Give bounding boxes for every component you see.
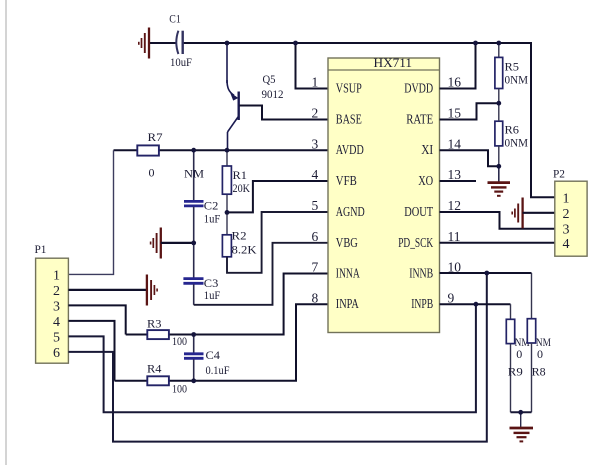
junction R4/C4	[191, 378, 196, 383]
capacitor C4	[184, 335, 230, 381]
capacitor C1	[169, 12, 192, 69]
svg-text:R2: R2	[232, 229, 247, 243]
svg-text:4: 4	[312, 167, 319, 182]
svg-text:20K: 20K	[233, 181, 251, 195]
junction R3/C4	[191, 332, 196, 337]
resistor R7	[137, 130, 204, 181]
svg-text:P2: P2	[553, 167, 565, 181]
svg-text:VFB: VFB	[336, 174, 357, 189]
svg-text:15: 15	[448, 106, 462, 121]
svg-text:100: 100	[172, 334, 187, 348]
wire R2 bottom to AGND pin5	[227, 212, 328, 273]
svg-text:100: 100	[172, 382, 187, 396]
ground GND6 (below R9/R8)	[510, 428, 534, 441]
junction R1/R2/VFB	[225, 210, 230, 215]
svg-text:XO: XO	[418, 174, 433, 189]
svg-text:10uF: 10uF	[170, 55, 192, 69]
wire P1 pin2 to ground	[68, 289, 146, 291]
svg-text:DVDD: DVDD	[404, 82, 433, 97]
svg-text:R4: R4	[147, 362, 162, 376]
svg-text:12: 12	[448, 198, 462, 213]
resistor R4	[147, 362, 187, 396]
svg-text:R3: R3	[147, 317, 162, 331]
wire P1 pin1 riser	[68, 150, 113, 274]
resistor R9	[506, 304, 530, 412]
svg-text:PD_SCK: PD_SCK	[398, 236, 433, 251]
svg-text:RATE: RATE	[406, 113, 433, 128]
svg-text:DOUT: DOUT	[404, 205, 433, 220]
wire C3 bottom to VBG pin6	[194, 243, 328, 305]
wire P1 pin6 to INNB node	[68, 273, 486, 442]
capacitor C3	[183, 243, 220, 305]
wire P1 pin4 to R4	[68, 321, 114, 381]
svg-text:1: 1	[312, 75, 319, 90]
svg-text:0.1uF: 0.1uF	[206, 363, 230, 377]
wire INPB pin9	[440, 303, 511, 305]
svg-text:0NM: 0NM	[505, 73, 529, 87]
capacitor C2	[184, 150, 221, 243]
svg-text:R8: R8	[532, 364, 546, 378]
svg-text:INPB: INPB	[411, 297, 433, 312]
resistor R2	[222, 212, 256, 256]
svg-text:BASE: BASE	[336, 113, 362, 128]
svg-text:0: 0	[149, 166, 155, 180]
junction AVDD/R1/collector	[225, 148, 230, 153]
connector P2	[553, 167, 587, 257]
svg-text:5: 5	[312, 198, 319, 213]
junction INNB/P1-6 riser	[484, 271, 489, 276]
svg-text:INNB: INNB	[409, 267, 433, 282]
wire P1 pin3 to R3	[68, 305, 125, 334]
page edge line	[5, 0, 7, 465]
svg-text:VBG: VBG	[336, 236, 358, 251]
resistor R5	[495, 43, 528, 103]
svg-text:2: 2	[312, 106, 319, 121]
svg-text:R6: R6	[505, 123, 520, 137]
wire XI pin14 to R6 bottom	[440, 150, 499, 166]
svg-text:2: 2	[563, 207, 570, 222]
junction C2/C3/GND2	[191, 241, 196, 246]
junction rail/R5	[496, 41, 501, 46]
svg-text:VSUP: VSUP	[336, 82, 362, 97]
wire R4 row to INPA pin8	[115, 304, 329, 381]
ground GND3 (P1 pin2)	[147, 275, 157, 306]
wire VFB pin4	[227, 181, 328, 212]
wire PD_SCK pin11 to P2 pin4	[440, 242, 555, 244]
svg-text:3: 3	[563, 222, 570, 237]
junction AVDD/C2	[191, 148, 196, 153]
transistor Q5 (9012 PNP)	[227, 43, 239, 150]
resistor R8	[527, 273, 551, 412]
junction rail/VSUP	[293, 41, 298, 46]
svg-text:1uF: 1uF	[204, 212, 221, 226]
svg-text:9: 9	[448, 290, 455, 305]
svg-text:13: 13	[448, 167, 462, 182]
svg-text:3: 3	[53, 299, 60, 314]
connector P1	[35, 242, 69, 363]
svg-text:R7: R7	[148, 130, 163, 144]
ground GND5 (P2 pin2)	[512, 198, 522, 229]
svg-text:R1: R1	[233, 168, 248, 182]
svg-text:0NM: 0NM	[505, 136, 529, 150]
wire GND2 to node	[161, 242, 194, 244]
wire P1 pin5 to INPB node	[68, 304, 476, 412]
svg-text:INPA: INPA	[336, 297, 360, 312]
svg-text:INNA: INNA	[336, 267, 361, 282]
svg-text:8.2K: 8.2K	[232, 243, 257, 257]
wire node to GND6	[520, 412, 522, 427]
wire R3 row to INNA pin7	[126, 274, 328, 335]
svg-text:1uF: 1uF	[204, 288, 221, 302]
junction INPB/P1-5 riser	[474, 302, 479, 307]
svg-text:11: 11	[448, 229, 461, 244]
junction R5/R6/RATE	[496, 101, 501, 106]
svg-text:4: 4	[563, 237, 570, 252]
junction rail/DVDD	[473, 41, 478, 46]
svg-text:C2: C2	[204, 199, 219, 213]
resistor R3	[147, 317, 187, 349]
IC U1 HX711	[328, 55, 440, 332]
svg-text:0: 0	[537, 347, 543, 361]
wire top rail DVDD	[149, 43, 555, 197]
svg-text:R5: R5	[505, 60, 520, 74]
svg-text:Q5: Q5	[263, 72, 276, 86]
wire INNB pin10	[440, 272, 532, 274]
junction rail/Q5 emitter	[225, 41, 230, 46]
wire base of Q5 to pin 2	[240, 106, 329, 120]
wire XO pin13 stub	[440, 180, 477, 182]
svg-text:7: 7	[312, 260, 319, 275]
svg-text:2: 2	[53, 284, 60, 299]
svg-text:1: 1	[53, 268, 60, 283]
wire RATE pin15 to R5/R6 node	[440, 103, 499, 119]
junction R9/R8/GND6	[518, 410, 523, 415]
svg-text:HX711: HX711	[374, 55, 413, 70]
resistor R1	[222, 150, 250, 212]
svg-text:XI: XI	[421, 143, 433, 158]
svg-text:0: 0	[516, 347, 522, 361]
wire R9/R8 bottoms	[511, 411, 532, 413]
svg-text:C4: C4	[206, 348, 221, 362]
svg-text:3: 3	[312, 137, 319, 152]
junction R6/XI/GND4	[496, 164, 501, 169]
svg-text:P1: P1	[35, 242, 47, 256]
wire AVDD row	[114, 149, 329, 151]
svg-text:R9: R9	[508, 364, 523, 378]
wire DVDD pin16 to rail	[440, 43, 476, 89]
svg-text:1: 1	[563, 191, 570, 206]
svg-text:AVDD: AVDD	[336, 143, 364, 158]
ground GND2 (left of C2/C3 node)	[151, 228, 161, 259]
wire node to GND4	[498, 166, 500, 182]
svg-text:C1: C1	[169, 12, 181, 26]
svg-text:AGND: AGND	[336, 205, 365, 220]
ground GND1 (left of C1)	[139, 28, 149, 59]
wire VSUP pin1 from rail	[296, 43, 329, 89]
svg-text:16: 16	[448, 75, 462, 90]
svg-text:9012: 9012	[262, 87, 284, 101]
resistor R6	[495, 103, 528, 166]
svg-text:5: 5	[53, 330, 60, 345]
svg-text:6: 6	[312, 229, 319, 244]
svg-text:8: 8	[312, 290, 319, 305]
wire GND5 to P2 pin2	[523, 212, 555, 214]
svg-text:6: 6	[53, 346, 60, 361]
wire DOUT pin12 to P2 pin3	[440, 212, 555, 229]
svg-text:4: 4	[53, 315, 60, 330]
ground GND4 (below R6)	[488, 183, 511, 196]
